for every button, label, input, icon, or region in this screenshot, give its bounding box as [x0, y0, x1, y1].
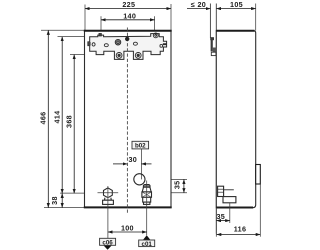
svg-text:38: 38 [50, 196, 59, 205]
svg-text:225: 225 [122, 0, 135, 9]
svg-text:140: 140 [123, 12, 136, 21]
svg-text:116: 116 [234, 224, 247, 233]
svg-text:c06: c06 [102, 239, 113, 246]
svg-text:≤ 20: ≤ 20 [191, 0, 206, 9]
svg-text:c01: c01 [142, 241, 153, 248]
svg-text:30: 30 [128, 155, 137, 164]
svg-text:414: 414 [53, 111, 62, 124]
svg-text:35: 35 [216, 212, 225, 221]
svg-text:466: 466 [39, 112, 48, 125]
svg-text:b02: b02 [135, 143, 146, 150]
svg-text:35: 35 [173, 180, 182, 189]
svg-text:105: 105 [230, 0, 243, 9]
svg-text:100: 100 [121, 224, 134, 233]
svg-text:368: 368 [65, 115, 74, 128]
